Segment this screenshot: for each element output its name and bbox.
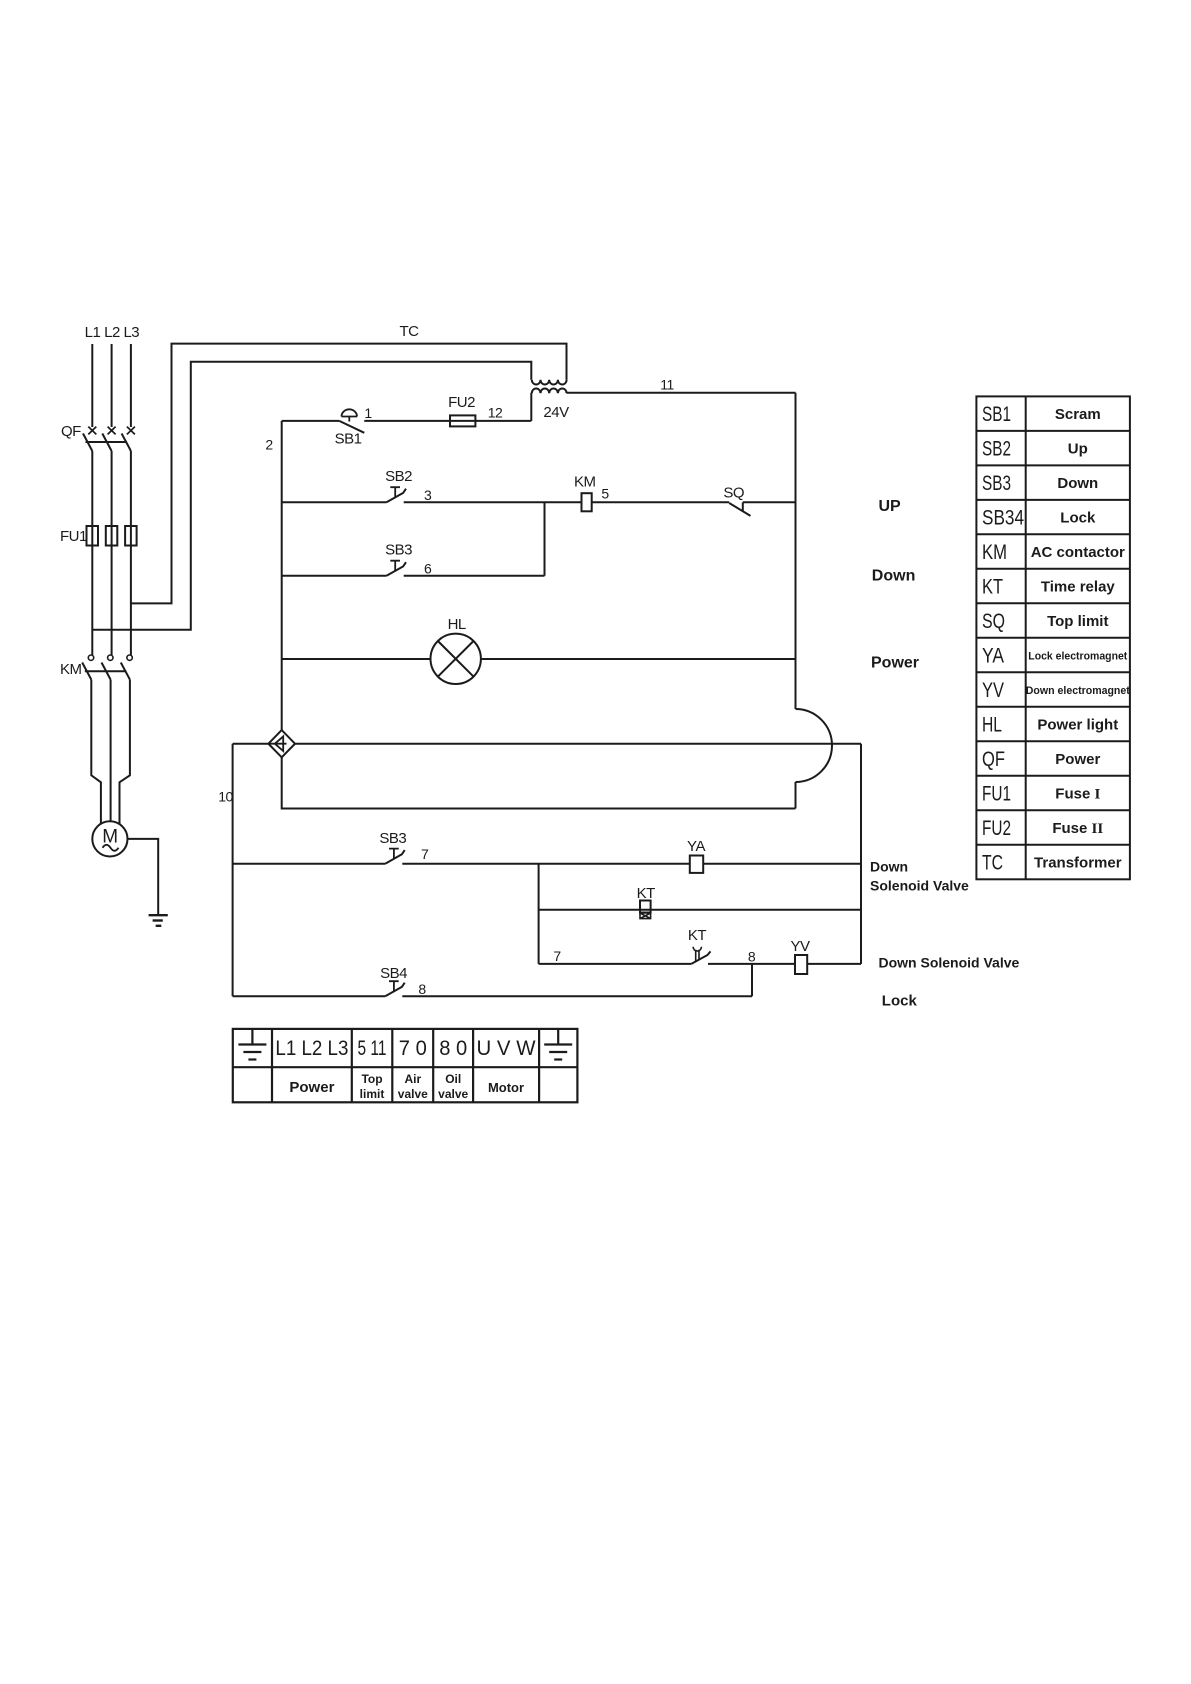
svg-text:Lock electromagnet: Lock electromagnet <box>1028 651 1127 663</box>
wire HL row right <box>481 658 796 660</box>
svg-text:KT: KT <box>982 576 1003 599</box>
svg-text:Time relay: Time relay <box>1041 579 1116 596</box>
node L1 label <box>85 324 101 341</box>
legend row YA Lock electromagnet <box>982 645 1128 668</box>
label UP <box>879 498 902 515</box>
legend row KT Time relay <box>982 576 1115 599</box>
wire KT2 to YV coil <box>708 963 795 965</box>
svg-text:8: 8 <box>748 949 756 965</box>
svg-text:KM: KM <box>574 474 596 491</box>
svg-text:Down Solenoid Valve: Down Solenoid Valve <box>879 955 1020 971</box>
svg-text:KM: KM <box>982 541 1007 564</box>
svg-text:Fuse I: Fuse I <box>1055 786 1100 803</box>
wire feed A from L3 to transformer primary right <box>131 344 567 604</box>
svg-text:Motor: Motor <box>488 1080 524 1095</box>
coil YV <box>795 955 807 974</box>
terminal label U V W <box>477 1037 536 1060</box>
fuse FU1 pole 3 <box>130 526 132 546</box>
wire L3 incoming <box>130 344 132 427</box>
contact KT delayed blade <box>691 951 710 964</box>
legend row HL Power light <box>982 714 1118 737</box>
svg-text:SB2: SB2 <box>385 468 412 485</box>
terminal label 7 0 <box>399 1037 427 1060</box>
svg-text:7 0: 7 0 <box>399 1037 427 1060</box>
legend row SB34 Lock <box>982 507 1096 530</box>
button SB4 operator <box>389 981 399 991</box>
wire hop arc over diamond row <box>796 709 833 782</box>
button SB4 label <box>380 965 407 982</box>
svg-text:FU1: FU1 <box>60 528 87 545</box>
svg-text:Down: Down <box>872 568 916 585</box>
wire branch row6 up to row3 <box>544 502 546 576</box>
svg-text:Power: Power <box>1055 751 1100 768</box>
node 1 label <box>364 405 372 421</box>
svg-text:KM: KM <box>60 661 82 678</box>
legend row TC Transformer <box>982 852 1122 875</box>
breaker QF pole 3 contact cross <box>127 427 135 435</box>
legend row SB3 Down <box>982 472 1098 495</box>
terminal label Top limit <box>360 1072 385 1101</box>
svg-text:SB3: SB3 <box>982 472 1011 495</box>
svg-text:L1: L1 <box>85 324 101 341</box>
svg-text:Down electromagnet: Down electromagnet <box>1026 685 1130 697</box>
button SB3 lower operator <box>389 849 399 859</box>
svg-text:SB4: SB4 <box>380 965 407 982</box>
transformer TC label <box>400 323 420 340</box>
legend row KM AC contactor <box>982 541 1125 564</box>
svg-text:Top: Top <box>361 1072 382 1086</box>
wire QF to FU1 pole 3 <box>130 451 132 526</box>
limit switch SQ stop tick <box>742 502 744 512</box>
wire row 6 left <box>282 575 387 577</box>
svg-text:2: 2 <box>265 437 273 453</box>
breaker QF linkage bar <box>86 441 128 443</box>
motor M letter <box>102 827 117 848</box>
svg-text:Lock: Lock <box>882 993 918 1010</box>
svg-text:L1 L2 L3: L1 L2 L3 <box>275 1037 348 1060</box>
svg-text:5 11: 5 11 <box>358 1037 387 1060</box>
button SB3 lower label <box>379 830 406 847</box>
svg-text:SB2: SB2 <box>982 438 1011 461</box>
wire SB1 to FU2 <box>364 420 450 422</box>
svg-text:FU2: FU2 <box>448 394 475 411</box>
svg-text:Power: Power <box>871 654 919 671</box>
label Down <box>872 568 916 585</box>
wire KM to motor pole 2 <box>110 680 112 822</box>
svg-text:SQ: SQ <box>982 610 1005 633</box>
right rail below hop <box>795 782 797 809</box>
svg-text:Down: Down <box>870 859 908 875</box>
svg-text:YA: YA <box>982 645 1004 668</box>
node 5 label <box>601 486 609 502</box>
motor M circle <box>92 821 127 856</box>
wire YA coil to mid rail <box>703 863 861 865</box>
svg-text:11: 11 <box>660 377 674 393</box>
svg-text:QF: QF <box>982 748 1005 771</box>
node 8 label right <box>748 949 756 965</box>
contactor KM pole 3 blade <box>121 663 130 680</box>
ground symbol motor <box>149 915 168 926</box>
svg-text:10: 10 <box>218 789 233 805</box>
svg-text:YA: YA <box>687 838 705 855</box>
node 6 label <box>424 560 432 576</box>
svg-text:Lock: Lock <box>1060 510 1096 527</box>
node 7 label <box>421 846 429 862</box>
svg-text:Oil: Oil <box>445 1072 461 1086</box>
svg-text:Fuse II: Fuse II <box>1052 820 1103 837</box>
svg-text:Scram: Scram <box>1055 406 1101 423</box>
svg-text:3: 3 <box>424 487 432 503</box>
svg-text:24V: 24V <box>543 404 569 421</box>
svg-text:L3: L3 <box>123 324 139 341</box>
legend row FU1 Fuse I <box>982 783 1100 806</box>
svg-text:1: 1 <box>364 405 372 421</box>
svg-text:Power light: Power light <box>1037 717 1118 734</box>
breaker QF pole 1 contact cross <box>88 427 96 435</box>
relay KT label <box>637 885 656 902</box>
svg-text:SB3: SB3 <box>379 830 406 847</box>
svg-text:FU1: FU1 <box>982 783 1011 806</box>
relay KT delay box <box>640 913 651 919</box>
button SB3 label <box>385 542 412 559</box>
svg-text:12: 12 <box>488 405 503 421</box>
coil YA <box>690 856 703 873</box>
svg-text:Solenoid Valve: Solenoid Valve <box>870 878 969 894</box>
limit switch SQ label <box>723 485 744 502</box>
terminal label Power <box>289 1079 334 1096</box>
node 2 label <box>265 437 273 453</box>
svg-text:AC contactor: AC contactor <box>1031 544 1125 561</box>
rectifier diamond <box>268 730 295 757</box>
motor M tilde <box>103 845 119 851</box>
terminal strip table frame <box>233 1029 578 1102</box>
wire SB2 to KM coil <box>404 501 582 503</box>
wire node 11 secondary right to right rail <box>567 392 796 394</box>
wire secondary left to FU2 row <box>530 393 532 421</box>
svg-text:6: 6 <box>424 560 432 576</box>
svg-text:5: 5 <box>601 486 609 502</box>
ground symbol terminal left <box>238 1030 266 1060</box>
transformer TC secondary winding <box>532 389 567 394</box>
wire SB3 lower to YA coil <box>402 863 690 865</box>
label Down Solenoid Valve single <box>879 955 1020 971</box>
svg-text:SB1: SB1 <box>335 431 362 448</box>
node 7 label KT2 row <box>553 948 561 964</box>
button SB3 lower blade <box>385 850 405 864</box>
legend row QF Power <box>982 748 1100 771</box>
wire YV coil to mid rail <box>807 963 861 965</box>
legend row FU2 Fuse II <box>982 817 1103 840</box>
wire row 3 left <box>282 501 387 503</box>
wire SB4 row left <box>233 995 386 997</box>
wire FU1 to KM pole 1 <box>91 546 93 656</box>
wire QF to FU1 pole 1 <box>91 451 93 526</box>
svg-text:YV: YV <box>982 679 1004 702</box>
button SB3 operator <box>390 561 400 571</box>
button SB1 label <box>335 431 362 448</box>
terminal label Motor <box>488 1080 524 1095</box>
svg-text:valve: valve <box>398 1087 428 1101</box>
svg-text:FU2: FU2 <box>982 817 1011 840</box>
svg-text:SB3: SB3 <box>385 542 412 559</box>
svg-text:SB34: SB34 <box>982 507 1024 530</box>
wire FU1 to KM pole 3 <box>130 546 132 656</box>
svg-text:8 0: 8 0 <box>439 1037 467 1060</box>
wire KT row <box>539 909 861 911</box>
wire FU1 to KM pole 2 <box>111 546 113 656</box>
terminal label 5 11 <box>358 1037 387 1060</box>
svg-text:7: 7 <box>421 846 429 862</box>
svg-text:UP: UP <box>879 498 902 515</box>
wire KM to motor pole 3 <box>120 680 130 825</box>
breaker QF pole 1 blade <box>83 434 92 452</box>
wire motor to ground <box>128 839 159 914</box>
wire YA row left <box>233 863 386 865</box>
wire SQ to right rail <box>743 501 796 503</box>
wire QF to FU1 pole 2 <box>111 451 113 526</box>
svg-text:M: M <box>102 827 117 848</box>
lamp HL cross <box>438 641 474 677</box>
node 10 label <box>218 789 233 805</box>
transformer TC primary winding <box>532 380 567 385</box>
svg-text:Transformer: Transformer <box>1034 855 1122 872</box>
svg-text:QF: QF <box>61 423 81 440</box>
coil YA label <box>687 838 705 855</box>
fuse FU1 pole 2 <box>111 526 113 546</box>
contactor KM pole 1 contact circle <box>88 655 93 660</box>
svg-text:SQ: SQ <box>723 485 744 502</box>
wire L1 incoming <box>91 344 93 427</box>
wire SB4 to node 8 <box>402 995 752 997</box>
legend row SB2 Up <box>982 438 1088 461</box>
wire FU2 to transformer secondary <box>475 420 531 422</box>
right mid rail <box>860 744 862 964</box>
breaker QF pole 2 contact cross <box>108 427 116 435</box>
svg-text:Top limit: Top limit <box>1047 613 1108 630</box>
fuse FU1 pole 1 <box>91 526 93 546</box>
fuse FU2 label <box>448 394 475 411</box>
node 2 rail <box>281 421 283 730</box>
svg-text:U V W: U V W <box>477 1037 536 1060</box>
wire KT2 row left <box>539 963 692 965</box>
contactor KM pole 2 contact circle <box>108 655 113 660</box>
label Down Solenoid Valve two lines <box>870 859 969 894</box>
wire SB3 to branch <box>404 575 545 577</box>
breaker QF pole 3 blade <box>122 434 131 452</box>
wire branch YA row down <box>538 864 540 964</box>
relay KT body <box>640 901 651 913</box>
ground symbol terminal right <box>544 1030 572 1060</box>
button SB3 blade <box>387 562 407 576</box>
rectifier diode triangle <box>275 736 283 751</box>
wire row 1 left <box>282 420 340 422</box>
node 12 label <box>488 405 503 421</box>
transformer TC 24V label <box>543 404 569 421</box>
svg-text:TC: TC <box>982 852 1003 875</box>
rectifier wire through <box>268 743 286 745</box>
contact KT delay symbol <box>693 947 701 961</box>
svg-text:HL: HL <box>982 714 1002 737</box>
coil YV label <box>790 938 810 955</box>
breaker QF pole 2 blade <box>102 434 111 452</box>
coil KM <box>582 493 592 511</box>
wire KM to motor pole 1 <box>91 680 101 825</box>
contactor KM pole 1 blade <box>82 663 91 680</box>
node L3 label <box>123 324 139 341</box>
svg-text:limit: limit <box>360 1087 385 1101</box>
legend row SQ Top limit <box>982 610 1108 633</box>
svg-text:valve: valve <box>438 1087 468 1101</box>
label Lock <box>882 993 918 1010</box>
contactor KM pole 3 contact circle <box>127 655 132 660</box>
breaker QF label <box>61 423 81 440</box>
svg-text:7: 7 <box>553 948 561 964</box>
fuse FU1 label <box>60 528 87 545</box>
svg-text:Up: Up <box>1068 441 1088 458</box>
terminal label L1 L2 L3 <box>275 1037 348 1060</box>
contact KT delayed label <box>688 927 707 944</box>
lamp HL label <box>448 616 466 633</box>
node 3 label <box>424 487 432 503</box>
button SB2 blade <box>387 489 407 503</box>
terminal label Air valve <box>398 1072 428 1101</box>
svg-text:Air: Air <box>404 1072 421 1086</box>
node 8 label SB4 row <box>418 981 426 997</box>
return wire to diamond bottom <box>282 757 796 809</box>
terminal label 8 0 <box>439 1037 467 1060</box>
right rail upper <box>795 393 797 709</box>
svg-text:8: 8 <box>418 981 426 997</box>
limit switch SQ blade <box>729 503 750 516</box>
node L2 label <box>104 324 120 341</box>
wire HL row left <box>282 658 431 660</box>
svg-text:Power: Power <box>289 1079 334 1096</box>
fuse FU2 <box>450 420 475 422</box>
contactor KM linkage bar <box>85 670 127 672</box>
label Power <box>871 654 919 671</box>
legend row SB1 Scram <box>982 403 1101 426</box>
svg-text:TC: TC <box>400 323 420 340</box>
svg-text:KT: KT <box>637 885 656 902</box>
svg-text:HL: HL <box>448 616 466 633</box>
coil KM label <box>574 474 596 491</box>
button SB4 blade <box>385 983 405 997</box>
legend row YV Down electromagnet <box>982 679 1130 702</box>
terminal label Oil valve <box>438 1072 468 1101</box>
wire diamond right to mid rail <box>295 743 861 745</box>
node 10 rail <box>232 744 234 997</box>
svg-text:L2: L2 <box>104 324 120 341</box>
wire diamond left to node 10 rail <box>233 743 269 745</box>
lamp HL circle <box>431 634 481 684</box>
node 11 label <box>660 377 674 393</box>
button SB2 label <box>385 468 412 485</box>
button SB1 mushroom head <box>342 409 358 421</box>
wire feed B from L1 to transformer primary left <box>92 362 531 630</box>
svg-text:YV: YV <box>790 938 810 955</box>
wire KM coil to SQ <box>592 501 730 503</box>
wire node 8 down to SB4 row <box>751 964 753 996</box>
contactor KM pole 2 blade <box>102 663 111 680</box>
button SB1 blade <box>339 421 364 433</box>
svg-text:Down: Down <box>1057 475 1098 492</box>
svg-text:SB1: SB1 <box>982 403 1011 426</box>
svg-text:KT: KT <box>688 927 707 944</box>
wire L2 incoming <box>111 344 113 427</box>
contactor KM label <box>60 661 82 678</box>
legend table frame <box>976 396 1130 879</box>
button SB2 operator <box>390 487 400 497</box>
